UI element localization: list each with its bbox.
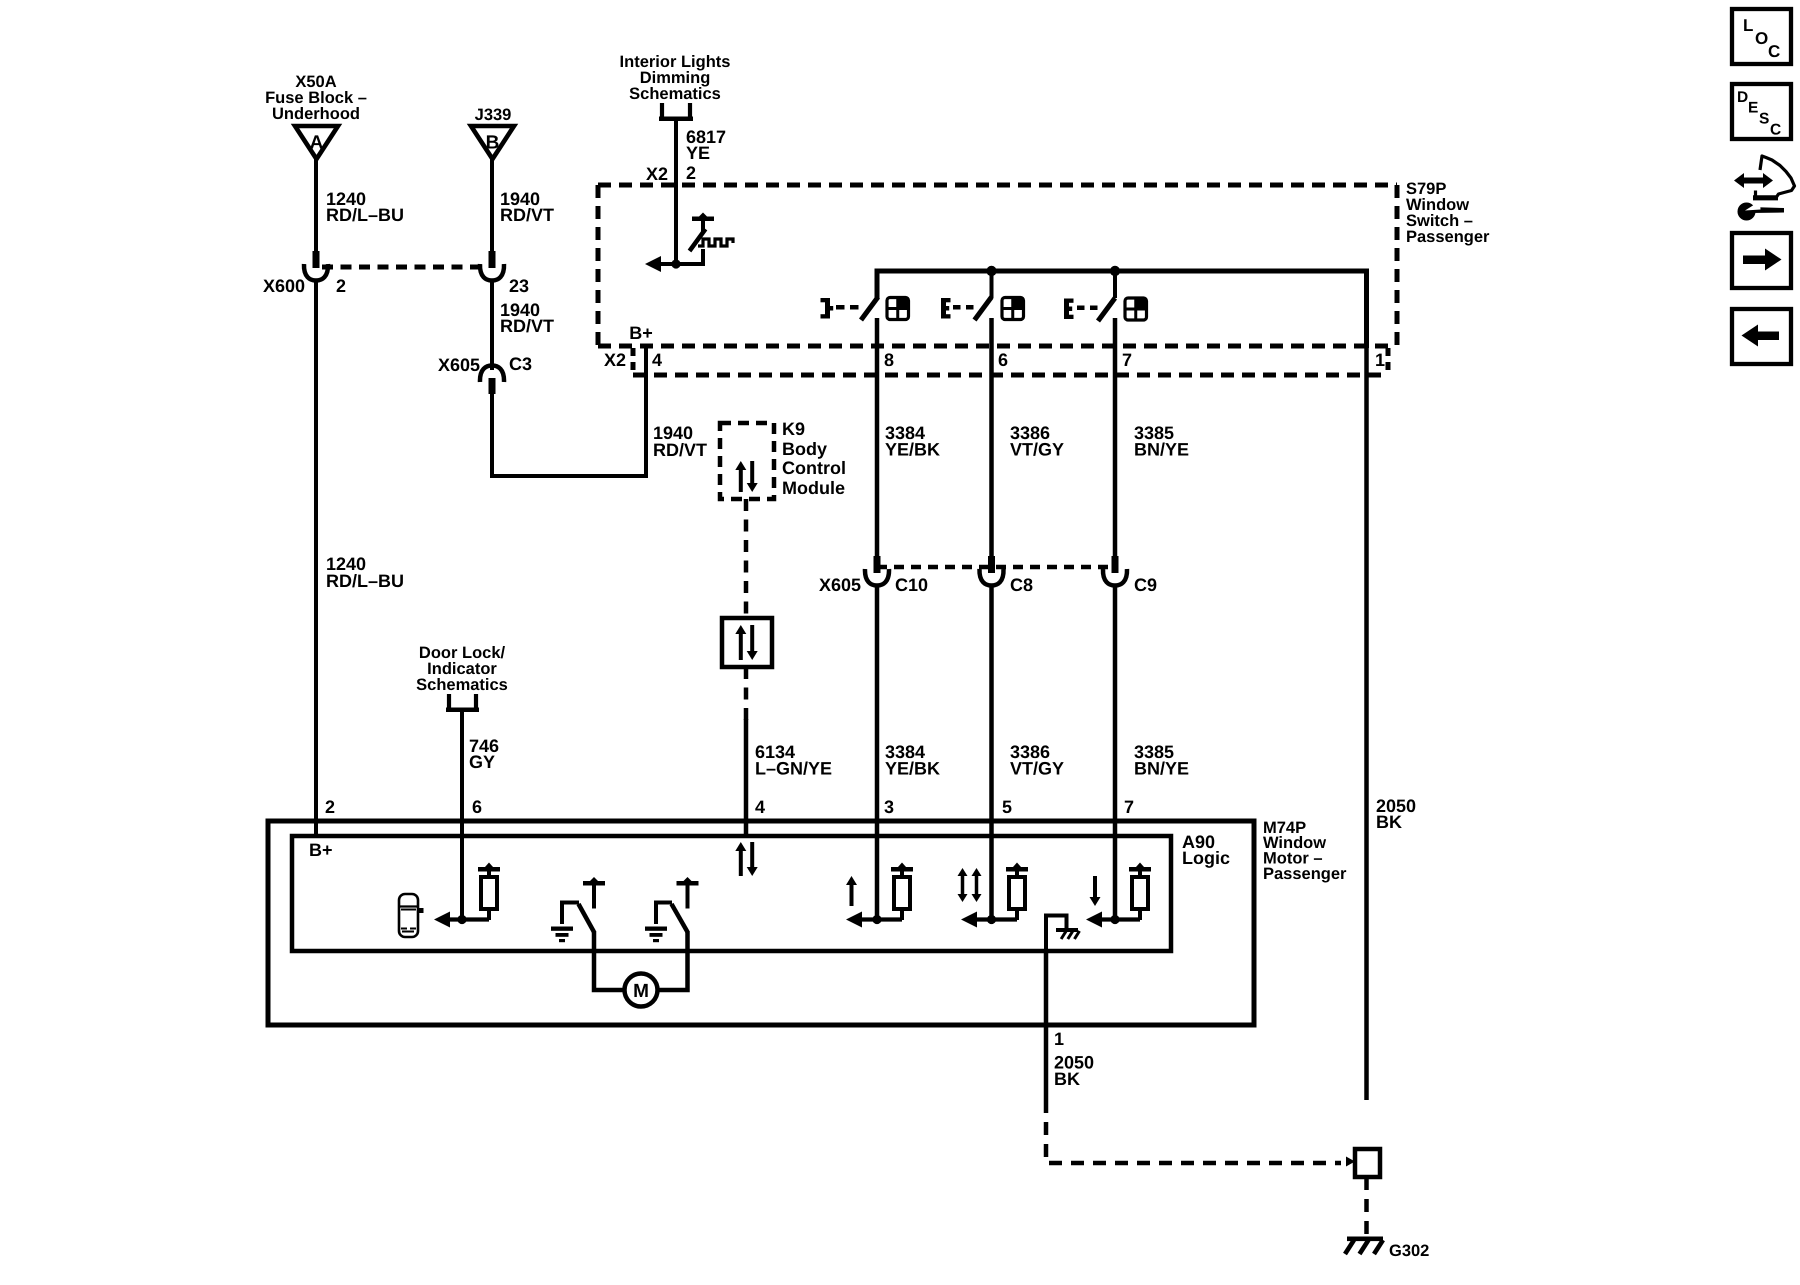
off-page triangle A (X50A): [295, 126, 338, 159]
wire 6134 L-GN/YE: [744, 719, 749, 836]
svg-text:YE/BK: YE/BK: [885, 759, 940, 779]
svg-text:7: 7: [1122, 350, 1132, 370]
svg-text:B+: B+: [309, 840, 333, 860]
connector X605 C8: [988, 556, 995, 573]
svg-text:23: 23: [509, 276, 529, 296]
svg-text:6: 6: [998, 350, 1008, 370]
wire 3385 X605 to motor pin 7: [1113, 585, 1118, 821]
svg-text:Control: Control: [782, 458, 846, 478]
arrow to car: [449, 917, 489, 921]
svg-text:VT/GY: VT/GY: [1010, 759, 1064, 779]
arrowhead into splice: [1346, 1157, 1355, 1167]
B+ bus bar in S79P: [877, 271, 1367, 348]
svg-text:X2: X2: [646, 164, 668, 184]
svg-text:X600: X600: [263, 276, 305, 296]
internal chassis ground in logic box: [1046, 916, 1067, 952]
svg-text:Passenger: Passenger: [1263, 865, 1347, 883]
svg-text:BN/YE: BN/YE: [1134, 759, 1189, 779]
bus junction dot at pin 6 drop: [986, 266, 996, 276]
svg-text:Logic: Logic: [1182, 848, 1230, 868]
svg-text:RD/L–BU: RD/L–BU: [326, 571, 404, 591]
resistor R at pin 3: [891, 867, 913, 872]
dashed wire K9 to logic arrow box: [744, 499, 749, 618]
svg-text:Underhood: Underhood: [272, 105, 360, 123]
switch link dashes (pin 6): [953, 305, 961, 310]
wire 1240 from X600 to window motor pin 2: [314, 280, 318, 821]
sidebar DESC button: [1732, 84, 1791, 139]
svg-text:5: 5: [1002, 797, 1012, 817]
bus drop to window-up switch: [990, 271, 994, 298]
wire 3384 S79P pin8 to X605 C10: [875, 318, 880, 558]
arrow left pin 5: [977, 917, 1017, 921]
window icon (pin 7 switch): [1125, 298, 1147, 320]
switch contact bracket (pin 7 down): [1064, 299, 1069, 320]
wire 3385 S79P pin7 to X605 C9: [1113, 318, 1118, 558]
drive switch 1 contact T: [583, 881, 605, 886]
dashed connector link X605 row: [877, 565, 1115, 570]
drive switch 1 ground: [551, 927, 573, 931]
svg-text:BK: BK: [1054, 1069, 1080, 1089]
svg-text:X605: X605: [819, 575, 861, 595]
drive switch 2 ground: [645, 927, 667, 931]
off-page triangle B (J339): [471, 126, 514, 159]
wire pin 3 stub: [875, 821, 880, 836]
bus drop to window-down switch: [1113, 271, 1117, 298]
up arrow indicator pin 3: [850, 884, 854, 906]
svg-text:Schematics: Schematics: [416, 676, 508, 694]
K9 Body Control Module dashed box: [720, 423, 774, 499]
svg-text:4: 4: [652, 350, 662, 370]
wire pin 2 stub into logic box: [314, 821, 318, 836]
wire pin 6 stub into logic box: [460, 821, 464, 836]
connector X605 C10: [874, 556, 881, 573]
svg-text:BN/YE: BN/YE: [1134, 440, 1189, 460]
svg-text:Schematics: Schematics: [629, 85, 721, 103]
svg-text:X605: X605: [438, 355, 480, 375]
wire 1940 from triangle B: [490, 159, 494, 252]
illumination dimmer blade: [690, 229, 706, 251]
svg-text:2: 2: [336, 276, 346, 296]
switch link dashes (pin 8): [836, 305, 845, 310]
svg-text:C: C: [1768, 42, 1780, 61]
resistor R at pin 5: [1006, 867, 1028, 872]
svg-text:Body: Body: [782, 439, 827, 459]
svg-text:C8: C8: [1010, 575, 1033, 595]
switch link dashes (pin 7): [1077, 306, 1085, 311]
svg-text:E: E: [1748, 100, 1758, 117]
junction dot pin 5: [987, 915, 996, 924]
motor loop left wire: [594, 931, 624, 990]
svg-text:RD/VT: RD/VT: [500, 316, 554, 336]
svg-text:X2: X2: [604, 350, 626, 370]
svg-text:RD/VT: RD/VT: [653, 440, 707, 460]
svg-text:C10: C10: [895, 575, 928, 595]
dashed wire 2050 to splice: [1046, 1100, 1341, 1163]
illumination dimmer rheostat squiggle: [698, 239, 733, 246]
svg-text:S: S: [1759, 111, 1769, 128]
svg-text:YE: YE: [686, 143, 710, 163]
motor M1: [625, 974, 658, 1007]
window icon (pin 6 switch): [1002, 298, 1024, 320]
svg-text:B: B: [486, 133, 500, 154]
wire 1240 from triangle A to X600: [314, 159, 318, 252]
K9 window up/down arrows: [739, 469, 743, 492]
illumination dimmer contact T: [692, 217, 714, 222]
switch contact bracket (pin 6 up): [941, 298, 946, 319]
svg-text:A: A: [310, 133, 324, 154]
svg-text:G302: G302: [1389, 1242, 1429, 1260]
illumination dimmer junction dot: [671, 259, 680, 268]
splice box: [1355, 1149, 1380, 1177]
svg-text:GY: GY: [469, 752, 495, 772]
svg-text:VT/GY: VT/GY: [1010, 440, 1064, 460]
junction dot pin 7: [1110, 915, 1119, 924]
wire 2050 BK from S79P pin 1: [1364, 348, 1369, 1100]
switch blade (pin 7): [1098, 298, 1115, 321]
svg-text:YE/BK: YE/BK: [885, 440, 940, 460]
ground G302 symbol: [1347, 1237, 1383, 1242]
A90 logic inner box: [292, 836, 1171, 951]
S79P window switch dashed enclosure: [598, 183, 1397, 188]
sidebar wiring-tools sketch icon: [1734, 173, 1773, 188]
svg-text:K9: K9: [782, 419, 805, 439]
car icon: [399, 894, 418, 937]
svg-text:O: O: [1755, 29, 1768, 48]
svg-text:2: 2: [686, 163, 696, 183]
svg-text:1: 1: [1054, 1029, 1064, 1049]
wire 1940 from C3 to S79P pin 4 (L path): [492, 344, 646, 476]
resistor R at pin 6: [478, 867, 500, 872]
dashed connector link X600 to J339-23: [322, 265, 480, 270]
wire 6817 YE: [674, 119, 678, 264]
wire pin 7 stub: [1113, 821, 1118, 836]
svg-text:RD/VT: RD/VT: [500, 205, 554, 225]
svg-text:C9: C9: [1134, 575, 1157, 595]
junction dot pin 6 branch: [457, 915, 466, 924]
svg-text:BK: BK: [1376, 812, 1402, 832]
illumination dimmer arrow left: [661, 262, 676, 266]
svg-text:RD/L–BU: RD/L–BU: [326, 205, 404, 225]
arrow left pin 7: [1102, 917, 1140, 921]
svg-text:3: 3: [884, 797, 894, 817]
motor loop right wire: [658, 931, 688, 990]
svg-text:C: C: [1770, 122, 1781, 139]
down arrow indicator pin 7: [1093, 876, 1097, 898]
arrows in command box: [739, 633, 743, 660]
connector X605 C9: [1112, 556, 1119, 573]
svg-text:D: D: [1737, 89, 1748, 106]
window up/down arrows at pin 4: [739, 850, 743, 876]
svg-text:L: L: [1743, 16, 1753, 35]
svg-text:1: 1: [1375, 350, 1385, 370]
resistor R at pin 7: [1129, 867, 1151, 872]
dashed wire splice to G302: [1364, 1177, 1369, 1240]
drive switch 2 contact T: [677, 881, 699, 886]
window icon (pin 8 switch): [887, 298, 909, 320]
off-page bracket under Interior Lights label: [660, 103, 664, 117]
svg-text:Module: Module: [782, 478, 845, 498]
sidebar forward arrow button: [1732, 233, 1791, 288]
dashed wire command box to 6134: [744, 667, 749, 721]
drive switch 1 contact L-wire: [562, 903, 579, 925]
svg-text:8: 8: [884, 350, 894, 370]
window up/down command box: [722, 618, 772, 667]
svg-text:J339: J339: [475, 106, 512, 124]
wire pin 5 to junction: [989, 836, 994, 920]
wire 2050 BK from logic ground to splice: [1044, 949, 1049, 1100]
arrow left pin 3: [862, 917, 902, 921]
svg-text:C3: C3: [509, 354, 532, 374]
wire 3386 S79P pin6 to X605 C8: [989, 318, 994, 558]
sidebar LOC button: [1732, 9, 1791, 64]
M74P window motor outer box: [268, 821, 1254, 1025]
drive switch 2 blade: [672, 904, 688, 932]
wire 3386 X605 to motor pin 5: [989, 585, 994, 821]
svg-text:6: 6: [472, 797, 482, 817]
svg-text:4: 4: [755, 797, 765, 817]
switch contact bracket (pin 8 express): [825, 298, 830, 319]
S79P X2 connector band: [633, 373, 1388, 378]
wire pin 7 to junction: [1113, 836, 1118, 920]
wire pin 5 stub: [989, 821, 994, 836]
up/down arrow indicators pin 5: [961, 875, 965, 895]
svg-text:Passenger: Passenger: [1406, 228, 1490, 246]
drive switch 2 contact L-wire: [656, 903, 672, 925]
svg-text:B+: B+: [629, 323, 653, 343]
junction dot pin 3: [872, 915, 881, 924]
svg-text:L–GN/YE: L–GN/YE: [755, 759, 832, 779]
connector X605 C3: [480, 366, 504, 383]
sidebar back arrow button: [1732, 309, 1791, 364]
illumination dimmer L-stub: [676, 249, 703, 264]
switch blade (pin 8): [861, 297, 878, 320]
svg-text:M: M: [633, 981, 649, 1002]
bus junction dot at pin 7 drop: [1110, 266, 1120, 276]
switch blade (pin 6): [975, 297, 992, 320]
wire 1940 from 23 to X605 C3: [490, 280, 494, 370]
wire 746 GY: [460, 710, 464, 919]
svg-text:2: 2: [325, 797, 335, 817]
wire 3384 X605 to motor pin 3: [875, 585, 880, 821]
wire pin 3 to junction: [875, 836, 880, 920]
off-page bracket under Door Lock label: [447, 694, 451, 708]
drive switch 1 blade: [579, 904, 595, 932]
connector X600 pin 2: [313, 251, 320, 268]
wire pin 6 to junction: [460, 836, 464, 920]
svg-text:7: 7: [1124, 797, 1134, 817]
connector 23 at J339: [489, 251, 496, 268]
